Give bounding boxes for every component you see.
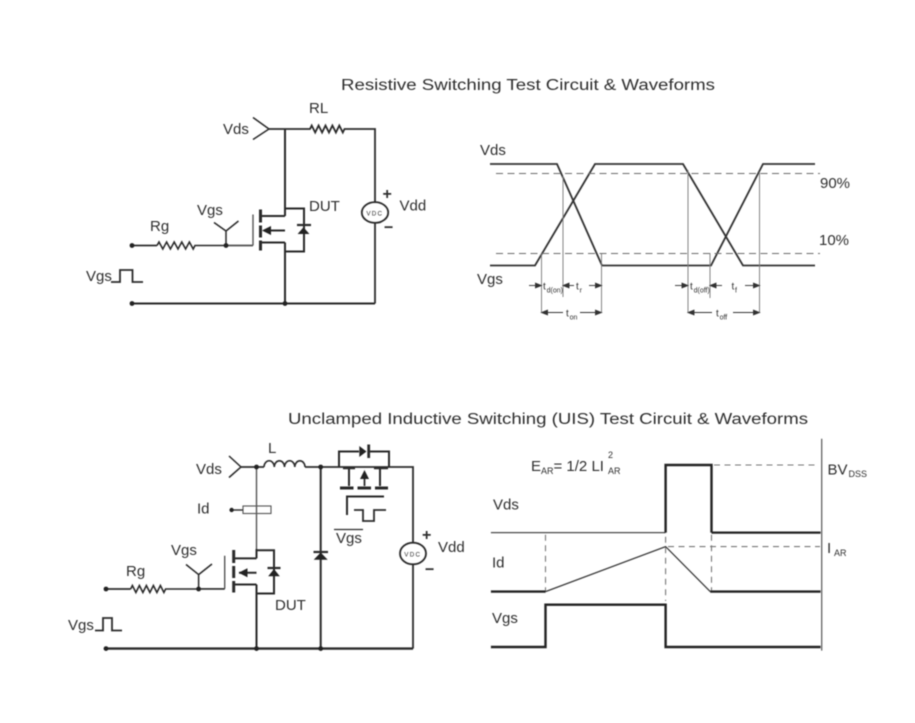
svg-text:on: on [570, 315, 578, 322]
svg-text:Vgs: Vgs [492, 610, 518, 627]
svg-text:DUT: DUT [275, 597, 306, 614]
svg-text:d(on): d(on) [547, 288, 563, 295]
svg-text:t: t [543, 282, 546, 293]
svg-text:RL: RL [309, 100, 328, 117]
svg-text:Vgs: Vgs [197, 202, 223, 219]
svg-text:BV: BV [828, 462, 848, 479]
svg-text:off: off [720, 315, 728, 322]
svg-text:t: t [716, 309, 719, 320]
svg-text:DUT: DUT [309, 198, 340, 215]
svg-text:Vdd: Vdd [400, 198, 427, 215]
svg-text:AR: AR [541, 466, 554, 476]
svg-text:Rg: Rg [126, 563, 145, 580]
svg-text:+: + [422, 527, 431, 544]
svg-text:t: t [576, 282, 579, 293]
svg-text:−: − [425, 562, 434, 579]
svg-text:+: + [383, 186, 392, 203]
svg-text:Vdd: Vdd [438, 539, 465, 556]
svg-text:−: − [384, 220, 393, 237]
svg-text:t: t [566, 309, 569, 320]
svg-text:Vgs: Vgs [336, 530, 362, 547]
svg-text:2: 2 [608, 450, 613, 460]
svg-text:Id: Id [492, 555, 505, 572]
svg-text:Vds: Vds [480, 142, 506, 159]
svg-text:Id: Id [197, 501, 210, 518]
svg-text:d(off): d(off) [694, 288, 710, 295]
svg-text:Vds: Vds [223, 121, 249, 138]
svg-text:f: f [735, 288, 737, 295]
svg-text:I: I [827, 540, 831, 557]
svg-text:r: r [580, 288, 583, 295]
svg-text:L: L [268, 440, 276, 457]
svg-text:Vgs: Vgs [86, 268, 112, 285]
svg-text:Resistive Switching Test Circu: Resistive Switching Test Circuit & Wavef… [341, 77, 715, 94]
svg-text:Unclamped Inductive Switching: Unclamped Inductive Switching (UIS) Test… [288, 411, 808, 428]
svg-text:Rg: Rg [150, 218, 169, 235]
svg-text:Vds: Vds [493, 497, 519, 514]
svg-text:10%: 10% [819, 232, 849, 249]
svg-text:AR: AR [834, 548, 847, 558]
svg-text:VDC: VDC [366, 210, 383, 217]
svg-text:AR: AR [608, 466, 621, 476]
svg-text:Vgs: Vgs [171, 542, 197, 559]
svg-text:Vgs: Vgs [477, 271, 503, 288]
svg-text:E: E [531, 458, 541, 475]
svg-text:= 1/2 LI: = 1/2 LI [554, 458, 604, 475]
svg-text:t: t [690, 282, 693, 293]
svg-text:VDC: VDC [404, 551, 421, 558]
svg-text:Vds: Vds [196, 461, 222, 478]
svg-text:DSS: DSS [849, 469, 868, 479]
svg-text:90%: 90% [820, 175, 850, 192]
svg-text:Vgs: Vgs [68, 617, 94, 634]
